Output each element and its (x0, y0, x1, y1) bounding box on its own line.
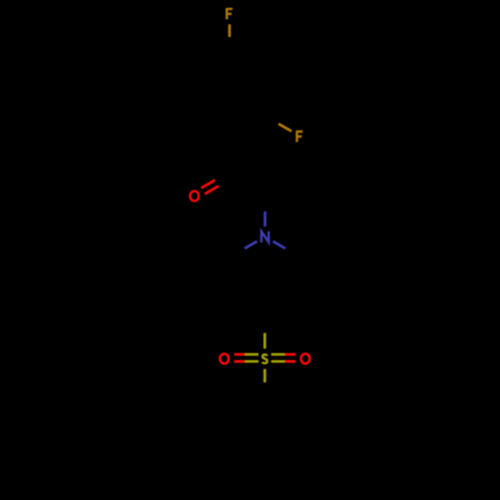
wire: bond S down to C (olive half) (263, 369, 266, 382)
wire: S=O left double bond bottom line red half (234, 360, 244, 363)
oxygen O (sulfonyl right) label (301, 354, 310, 364)
wire: S=O right double bond top line olive half (271, 353, 285, 356)
wire: S=O right double bond top line red half (285, 353, 296, 356)
wire: bond S up to ring C4 (olive half) (263, 333, 266, 349)
wire: C=O double bond line 2 (red half) (205, 186, 219, 194)
wire: bond N down-right to ring C2 (blue half) (273, 241, 285, 248)
fluorine F1 (para) label (227, 8, 233, 20)
wire: bond N up to CH2 (blue half) (264, 212, 267, 227)
wire: S=O left double bond bottom line olive half (245, 360, 259, 363)
wire: S=O left double bond top line olive half (245, 353, 259, 356)
wire: S=O right double bond bottom line olive half (271, 360, 285, 363)
wire: S=O left double bond top line red half (234, 353, 244, 356)
fluorine F2 (ortho) label (297, 131, 303, 143)
wire: C=O double bond line 1 (red half) (201, 180, 215, 188)
wire: bond F2 to ring C2 (gold half) (279, 124, 292, 131)
nitrogen N (piperidine) label (261, 231, 268, 242)
sulfur S (sulfonyl) label (262, 355, 267, 364)
wire: bond N down-left to ring C6 (blue half) (245, 241, 257, 248)
oxygen O (sulfonyl left) label (220, 354, 229, 364)
wire: S=O right double bond bottom line red half (285, 360, 296, 363)
oxygen O (ketone) label (190, 191, 199, 201)
wire: bond F1 to ring C4 (gold half) (228, 24, 231, 37)
